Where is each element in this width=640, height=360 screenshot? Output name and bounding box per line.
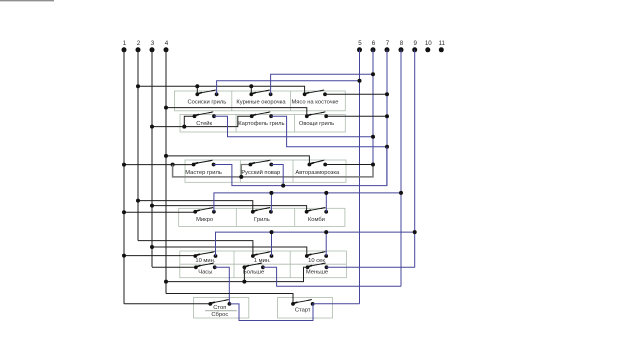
wire SB8 output down xyxy=(271,165,283,186)
switch SB14 1min xyxy=(251,254,255,258)
terminal 4 xyxy=(164,40,169,52)
top edge artifact xyxy=(0,0,54,2)
switch SB12 combi xyxy=(305,210,309,214)
wire SB19 output U-link xyxy=(229,304,313,321)
junction graybus-SB8 xyxy=(239,175,243,179)
terminal 8 xyxy=(399,40,404,52)
terminal 6 xyxy=(371,40,376,52)
wire row bus line2 y86 xyxy=(138,86,305,94)
svg-text:10 сек: 10 сек xyxy=(308,258,325,264)
wire line 2 vertical xyxy=(137,50,139,241)
junction column7-SB3 xyxy=(385,92,389,96)
svg-text:Картофель гриль: Картофель гриль xyxy=(238,121,284,127)
terminal 7 xyxy=(385,40,390,52)
switch SB9 auto defrost xyxy=(308,163,312,167)
junction line4-bus281 xyxy=(164,280,168,284)
junction line1-wire xyxy=(122,163,126,167)
wire SB5 output to column 7 xyxy=(271,116,387,147)
wire line3 to SB16 left xyxy=(152,266,196,268)
junction line3-bus xyxy=(150,125,154,129)
switch SB8 russian cook xyxy=(249,163,253,167)
switch SB19 stop xyxy=(208,302,212,306)
svg-text:Мясо на косточке: Мясо на косточке xyxy=(291,100,338,106)
svg-text:11: 11 xyxy=(439,40,446,47)
svg-text:8: 8 xyxy=(400,40,404,47)
junction line3-SB15wire xyxy=(150,245,154,249)
wire SB7 output down xyxy=(214,147,387,186)
junction column6-SB4 xyxy=(371,135,375,139)
switch SB2 chicken legs xyxy=(249,92,253,96)
wire SB17 output to column 8 xyxy=(263,267,401,286)
switch SB10 micro xyxy=(193,210,197,214)
group box stop key xyxy=(194,298,249,319)
wire line4 bus y281 xyxy=(166,267,308,281)
wire SB4 output to column 6 xyxy=(214,116,373,137)
junction line1-SB13 xyxy=(122,254,126,258)
svg-text:Меньше: Меньше xyxy=(306,269,328,275)
svg-text:Микро: Микро xyxy=(196,217,213,223)
wire line1 to SB19 left xyxy=(124,303,210,305)
wire SB1 output to column 5 xyxy=(217,81,360,95)
svg-text:Старт: Старт xyxy=(295,308,311,314)
wire column 5 vertical xyxy=(359,50,361,304)
junction line2-SB11wire xyxy=(136,199,140,203)
wire line 4 vertical xyxy=(165,50,167,294)
svg-text:10: 10 xyxy=(425,40,432,47)
label SB19 separator xyxy=(205,310,237,312)
svg-text:Сброс: Сброс xyxy=(211,312,228,318)
svg-text:4: 4 xyxy=(165,40,169,47)
junction column5-SB1 xyxy=(358,79,362,83)
wire riser SB12 output xyxy=(325,193,327,212)
svg-text:Комби: Комби xyxy=(308,217,325,223)
junction column8-modes xyxy=(399,191,403,195)
svg-text:5: 5 xyxy=(358,40,362,47)
wire line3 to SB15 left xyxy=(152,247,307,256)
junction column7-SB5 xyxy=(385,145,389,149)
switch SB5 potato grill xyxy=(250,114,254,118)
wire line1 to SB13 left xyxy=(124,255,195,257)
junction timebus-SB15 xyxy=(324,230,328,234)
junction line2-bus xyxy=(136,84,140,88)
junction bus-SB4 xyxy=(182,125,186,129)
wire time bus to column 9 xyxy=(216,232,415,256)
switch SB1 sausage grill xyxy=(195,92,199,96)
junction column7-SB6 xyxy=(385,114,389,118)
wire column 7 vertical xyxy=(386,50,388,186)
terminal 2 xyxy=(136,40,141,52)
wire riser SB4 left xyxy=(184,116,194,126)
junction line3-SB12wire xyxy=(150,204,154,208)
group box grill menu row 1 xyxy=(175,91,346,111)
svg-text:7: 7 xyxy=(386,40,390,47)
junction column9-timebus xyxy=(413,230,417,234)
terminal 5 xyxy=(357,40,362,52)
switch SB15 10sec xyxy=(305,254,309,258)
wire SB6 output to column 7 xyxy=(326,115,387,117)
svg-text:Русский повар: Русский повар xyxy=(241,169,280,176)
wire column 6 vertical xyxy=(372,50,374,165)
switch SB3 meat on bone xyxy=(303,92,307,96)
svg-text:9: 9 xyxy=(413,40,417,47)
switch SB17 more xyxy=(243,265,247,269)
svg-text:Овощи гриль: Овощи гриль xyxy=(299,121,334,127)
wire SB16 output down xyxy=(215,267,230,304)
switch SB13 10min xyxy=(193,254,197,258)
svg-text:6: 6 xyxy=(372,40,376,47)
svg-text:Стоп: Стоп xyxy=(213,305,226,311)
svg-text:Гриль: Гриль xyxy=(254,217,270,223)
wire SB9 output to column 6 xyxy=(325,164,373,166)
junction column6-SB2 xyxy=(371,72,375,76)
switch SB20 start xyxy=(291,302,295,306)
junction timebus-SB14 xyxy=(270,230,274,234)
group box start key xyxy=(278,298,333,319)
svg-text:1: 1 xyxy=(123,40,127,47)
wire riser SB2 left xyxy=(250,86,252,94)
junction modebus-SB11 xyxy=(269,191,273,195)
wire line4 bus to SB9 left xyxy=(166,156,309,165)
terminal 11 xyxy=(439,40,446,52)
wire riser SB1 left xyxy=(196,86,198,94)
svg-text:Стейк: Стейк xyxy=(196,120,212,127)
group box chef programs xyxy=(185,160,346,182)
svg-text:Больше: Больше xyxy=(243,269,264,275)
svg-text:Часы: Часы xyxy=(198,269,212,275)
wire riser SB15 output xyxy=(325,232,327,256)
wire line3 to SB12 left xyxy=(152,206,307,212)
junction line1-SB10 xyxy=(122,210,126,214)
wire gray bus common xyxy=(173,165,373,177)
junction modebus-SB12 xyxy=(324,191,328,195)
wire line 3 vertical xyxy=(151,50,153,267)
svg-text:2: 2 xyxy=(137,40,141,47)
wire riser SB8 left gray xyxy=(241,165,250,177)
wire line2 to SB14 left xyxy=(138,241,253,256)
junction bus-SB1 xyxy=(195,84,199,88)
wire column 5 to SB20 output xyxy=(313,303,360,305)
wire riser SB11 output xyxy=(270,193,272,212)
switch SB7 master grill xyxy=(192,163,196,167)
terminal 1 xyxy=(122,40,127,52)
wire line 1 vertical xyxy=(123,50,125,304)
wire line2 to SB11 left xyxy=(138,201,253,212)
wire SB10 output to column 8 xyxy=(214,193,401,212)
wire riser SB17 left xyxy=(243,267,245,281)
wire column 8 vertical xyxy=(400,50,402,286)
svg-text:Мастер гриль: Мастер гриль xyxy=(185,170,222,176)
svg-text:Сосиски гриль: Сосиски гриль xyxy=(187,100,226,106)
wire column 9 vertical xyxy=(414,50,416,268)
group box mode select xyxy=(179,208,345,226)
wire row bus line3 y126 xyxy=(152,116,252,126)
switch SB11 grill xyxy=(251,210,255,214)
svg-text:Авторазморозка: Авторазморозка xyxy=(295,170,340,176)
junction line4-SB9bus xyxy=(164,154,168,158)
group box grill menu row 2 xyxy=(180,115,345,133)
terminal 3 xyxy=(150,40,155,52)
switch SB18 less xyxy=(306,265,310,269)
terminal 9 xyxy=(412,40,417,52)
svg-text:Куриные окорочка: Куриные окорочка xyxy=(236,100,286,106)
terminal 10 xyxy=(425,40,432,52)
svg-text:1 мин.: 1 мин. xyxy=(254,258,271,264)
switch SB4 steak xyxy=(193,114,197,118)
junction bus-SB2 xyxy=(249,84,253,88)
wire SB18 output to column 9 xyxy=(327,266,415,268)
group box time keys xyxy=(180,251,347,278)
wire SB2 output to column 6 xyxy=(271,74,373,94)
wire riser SB14 output xyxy=(271,232,273,256)
junction column6 end xyxy=(371,163,375,167)
junction branch gray bus xyxy=(171,163,175,167)
wire line1 to SB10 left xyxy=(124,211,195,213)
junction line4-SB6wire xyxy=(164,106,168,110)
junction SB7SB8 outputs xyxy=(281,184,285,188)
svg-text:3: 3 xyxy=(151,40,155,47)
switch SB6 vegetables grill xyxy=(305,114,309,118)
wire line4 to SB20 left xyxy=(166,294,293,304)
wire line4 to SB6 left xyxy=(166,108,307,117)
wire line1 to SB7 left xyxy=(124,164,194,166)
switch SB16 clock xyxy=(194,265,198,269)
junction bus281-SB17 xyxy=(242,280,246,284)
wire SB3 output to column 7 xyxy=(325,93,387,95)
